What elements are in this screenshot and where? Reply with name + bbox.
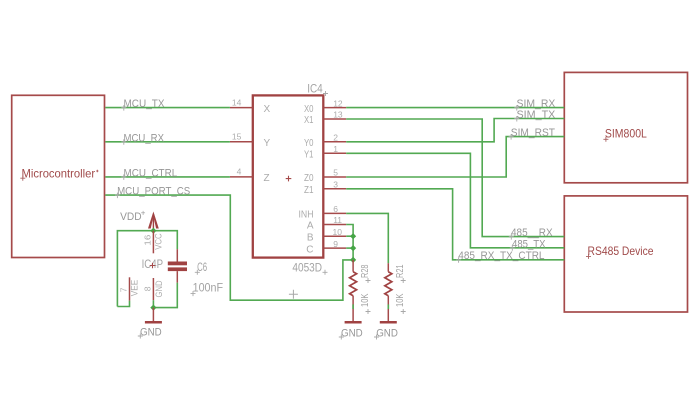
svg-text:B: B xyxy=(307,232,314,243)
wire INH to R21 xyxy=(346,213,388,263)
svg-text:R28: R28 xyxy=(359,264,371,278)
svg-text:INH: INH xyxy=(299,210,314,221)
svg-text:15: 15 xyxy=(232,132,242,142)
wire VDD rail top xyxy=(117,231,177,307)
wire B to junction xyxy=(346,235,353,237)
label 485__RX origin cross xyxy=(509,234,514,240)
svg-text:SIM_RST: SIM_RST xyxy=(511,127,555,139)
IC4 right pin names xyxy=(299,104,314,256)
svg-text:10K: 10K xyxy=(394,294,406,308)
IC4 pin 14 stub xyxy=(230,107,253,109)
svg-text:+: + xyxy=(141,208,146,217)
wire 485_RX_TX_CTRL (Z1 pin3) xyxy=(346,189,564,260)
IC4P power gate xyxy=(142,259,164,271)
label MCU_TX origin cross xyxy=(121,105,126,111)
svg-text:10: 10 xyxy=(333,227,343,237)
wire A-B-C chain to R28 xyxy=(346,225,353,260)
svg-text:GND: GND xyxy=(376,327,398,339)
IC4 pin 13 stub xyxy=(323,118,346,120)
svg-text:Y1: Y1 xyxy=(304,150,314,161)
capacitor C6 xyxy=(168,249,223,294)
resistor R28 xyxy=(350,260,371,323)
IC4 pin 5 stub xyxy=(323,176,346,178)
Microcontroller U-MCU box xyxy=(12,95,105,257)
R28 name origin cross xyxy=(366,278,371,283)
big gray origin cross xyxy=(289,290,298,299)
junction node R28 top xyxy=(350,257,356,263)
svg-text:12: 12 xyxy=(333,98,343,108)
IC4 symbol origin cross xyxy=(286,176,292,182)
svg-text:VCC: VCC xyxy=(154,233,165,250)
wire C to junction xyxy=(346,247,353,249)
svg-text:X1: X1 xyxy=(304,115,314,126)
junction GND node xyxy=(150,305,156,311)
svg-text:16: 16 xyxy=(142,234,152,245)
wire 485__RX (X1 pin13) xyxy=(346,119,564,237)
IC4 pin 4 stub xyxy=(230,176,253,178)
svg-text:IC4: IC4 xyxy=(307,84,323,96)
wire VEE bottom xyxy=(117,301,129,307)
IC4 pin 3 stub xyxy=(323,188,346,190)
svg-text:GND: GND xyxy=(140,326,162,338)
ground GND under IC4P xyxy=(140,308,162,339)
IC4 pin 10 stub xyxy=(323,235,346,237)
RS485 origin cross xyxy=(586,254,591,259)
IC4 name origin cross xyxy=(323,91,328,96)
wire SIM_TX (Y0 pin2) xyxy=(346,119,564,142)
IC4P origin cross xyxy=(150,263,156,269)
svg-text:5: 5 xyxy=(333,168,338,178)
GND R28 origin cross xyxy=(339,335,344,340)
RS485 Device box xyxy=(564,196,687,312)
resistor R21 xyxy=(385,263,406,322)
svg-text:MCU_CTRL: MCU_CTRL xyxy=(124,168,178,180)
svg-text:485_RX_TX_CTRL: 485_RX_TX_CTRL xyxy=(458,250,544,262)
IC4P pin 16 VCC xyxy=(142,231,164,254)
svg-text:Z1: Z1 xyxy=(304,185,314,196)
svg-text:9: 9 xyxy=(333,239,338,249)
label SIM_TX origin cross xyxy=(514,116,519,122)
wire R21 bottom net xyxy=(387,304,389,309)
IC4P pin 7 VEE xyxy=(118,277,140,300)
svg-text:VDD: VDD xyxy=(120,211,142,223)
wire GND pin to node xyxy=(152,300,154,307)
svg-text:6: 6 xyxy=(333,204,338,214)
wire R28 bottom net xyxy=(352,304,354,309)
svg-text:2: 2 xyxy=(333,133,338,143)
svg-text:1: 1 xyxy=(333,144,338,154)
svg-text:MCU_TX: MCU_TX xyxy=(124,98,166,110)
IC4 pin 12 stub xyxy=(323,107,346,109)
IC4 pin 1 stub xyxy=(323,152,346,154)
R28 value origin cross xyxy=(366,309,371,314)
GND R21 origin cross xyxy=(374,335,379,340)
supply VDD symbol xyxy=(120,208,159,230)
svg-text:4: 4 xyxy=(237,167,242,177)
svg-text:RS485 Device: RS485 Device xyxy=(588,244,654,258)
ground GND under R28 xyxy=(341,322,363,339)
SIM800L origin cross xyxy=(603,137,608,142)
svg-text:VEE: VEE xyxy=(129,280,140,297)
svg-text:Z: Z xyxy=(264,173,270,184)
4053D value origin cross xyxy=(323,270,328,275)
IC4 left pin names xyxy=(264,104,271,184)
svg-text:MCU_RX: MCU_RX xyxy=(124,132,165,144)
svg-text:485__RX: 485__RX xyxy=(511,227,553,239)
IC4 4053D box xyxy=(253,84,323,275)
svg-text:3: 3 xyxy=(333,180,338,190)
wire 485_TX (Y1 pin1) xyxy=(346,153,564,248)
svg-text:100nF: 100nF xyxy=(193,282,224,294)
IC4 pin 2 stub xyxy=(323,141,346,143)
label MCU_CTRL origin cross xyxy=(121,174,126,180)
svg-text:14: 14 xyxy=(232,97,242,107)
svg-text:A: A xyxy=(307,221,314,232)
svg-text:8: 8 xyxy=(143,286,153,291)
wire MCU_RX xyxy=(105,141,230,143)
svg-text:MCU_PORT_CS: MCU_PORT_CS xyxy=(117,185,190,197)
svg-text:X: X xyxy=(264,104,271,115)
svg-text:GND: GND xyxy=(154,280,165,297)
wire SIM_RX (X0 pin12) xyxy=(346,107,564,109)
IC4 pin 6 stub xyxy=(323,212,346,214)
Microcontroller origin cross xyxy=(20,176,25,181)
svg-text:485_TX: 485_TX xyxy=(512,238,546,250)
svg-text:SIM800L: SIM800L xyxy=(605,127,647,141)
wire bottom rail to capacitor xyxy=(153,283,177,308)
IC4 pin 11 stub xyxy=(323,224,346,226)
svg-text:Y: Y xyxy=(264,138,271,149)
C6 value origin cross xyxy=(191,291,196,296)
ground GND under R21 xyxy=(376,322,398,339)
svg-text:Z0: Z0 xyxy=(304,173,314,184)
svg-text:7: 7 xyxy=(118,287,128,292)
svg-text:13: 13 xyxy=(333,110,343,120)
svg-text:SIM_TX: SIM_TX xyxy=(517,109,556,121)
junction node B xyxy=(350,233,356,239)
SIM800L box xyxy=(564,72,687,182)
label MCU_RX origin cross xyxy=(121,139,126,145)
svg-text:10K: 10K xyxy=(359,294,371,308)
junction node C xyxy=(350,245,356,251)
IC4 pin 9 stub xyxy=(323,247,346,249)
IC4P pin 8 GND xyxy=(143,278,165,300)
wire SIM_RST (Z0 pin5) xyxy=(346,137,564,177)
wire MCU_CTRL xyxy=(105,176,230,178)
svg-text:Microcontroller: Microcontroller xyxy=(22,166,96,180)
svg-text:GND: GND xyxy=(341,327,363,339)
svg-text:X0: X0 xyxy=(304,104,314,115)
IC4 pin 15 stub xyxy=(230,141,253,143)
svg-text:11: 11 xyxy=(333,215,342,225)
Microcontroller part mark xyxy=(96,170,98,172)
svg-text:C: C xyxy=(306,244,313,255)
GND IC4P origin cross xyxy=(138,334,143,339)
label 485_TX origin cross xyxy=(510,245,515,251)
label MCU_PORT_CS origin cross xyxy=(115,193,120,199)
label SIM_RX origin cross xyxy=(514,105,519,111)
label 485_RX_TX_CTRL origin cross xyxy=(456,257,461,263)
svg-text:R21: R21 xyxy=(394,264,406,278)
wire MCU_TX xyxy=(105,107,230,109)
label SIM_RST origin cross xyxy=(509,134,514,140)
C6 name origin cross xyxy=(195,270,200,275)
svg-text:Y0: Y0 xyxy=(304,138,314,149)
R21 value origin cross xyxy=(401,309,406,314)
junction VDD node xyxy=(150,228,156,234)
R21 name origin cross xyxy=(401,278,406,283)
wire MCU_PORT_CS xyxy=(105,195,353,300)
svg-text:4053D: 4053D xyxy=(292,263,322,275)
